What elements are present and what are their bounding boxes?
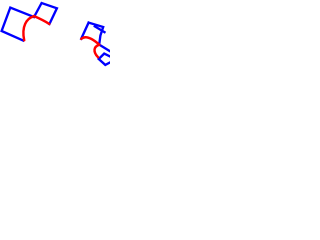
arc A1 inside S1: [23, 16, 33, 40]
square S4 edge (overlapping band): [95, 26, 105, 32]
arc A4 to S5: [95, 45, 100, 57]
arc A2 under S2: [34, 16, 50, 24]
square S2 (upper middle, closed): [34, 3, 57, 24]
arc A3 under S3: [81, 37, 99, 44]
square S3 (right; open bottom): [81, 23, 103, 45]
square S5 (small, bottom right, clipped): [99, 54, 110, 65]
square S1 (large, left; open right side): [2, 8, 34, 41]
wire S4 edge (clipped at right): [99, 45, 110, 52]
